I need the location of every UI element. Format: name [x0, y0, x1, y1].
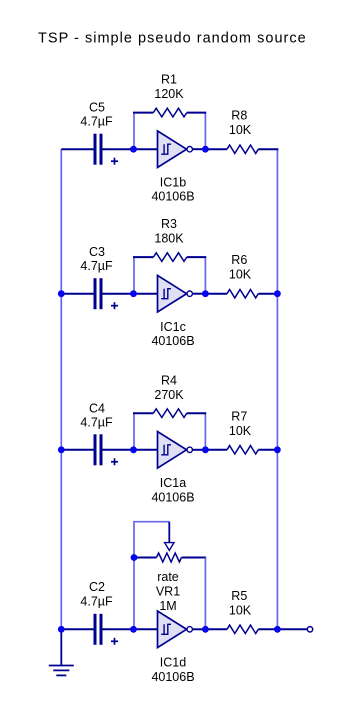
svg-text:40106B: 40106B — [151, 670, 194, 684]
svg-text:10K: 10K — [229, 123, 252, 137]
svg-text:40106B: 40106B — [151, 190, 194, 204]
svg-text:1M: 1M — [159, 599, 176, 613]
svg-text:R4: R4 — [161, 373, 177, 387]
svg-text:270K: 270K — [154, 388, 184, 402]
svg-text:R7: R7 — [231, 409, 247, 423]
svg-text:120K: 120K — [154, 87, 184, 101]
svg-text:4.7µF: 4.7µF — [80, 595, 113, 609]
svg-text:R3: R3 — [161, 217, 177, 231]
svg-text:VR1: VR1 — [156, 585, 180, 599]
svg-text:10K: 10K — [229, 603, 252, 617]
svg-text:180K: 180K — [154, 232, 184, 246]
svg-text:4.7µF: 4.7µF — [80, 115, 113, 129]
svg-text:10K: 10K — [229, 424, 252, 438]
svg-text:IC1a: IC1a — [160, 476, 186, 490]
svg-text:R6: R6 — [231, 253, 247, 267]
svg-text:40106B: 40106B — [151, 490, 194, 504]
svg-text:C2: C2 — [89, 580, 105, 594]
svg-text:R8: R8 — [231, 109, 247, 123]
svg-text:rate: rate — [157, 570, 179, 584]
svg-text:C5: C5 — [89, 101, 105, 115]
svg-text:4.7µF: 4.7µF — [80, 415, 113, 429]
svg-text:C4: C4 — [89, 401, 105, 415]
svg-text:40106B: 40106B — [151, 334, 194, 348]
svg-text:TSP - simple pseudo random sou: TSP - simple pseudo random source — [38, 31, 307, 47]
svg-text:IC1b: IC1b — [160, 175, 186, 189]
svg-text:C3: C3 — [89, 245, 105, 259]
svg-text:R5: R5 — [231, 589, 247, 603]
svg-text:4.7µF: 4.7µF — [80, 259, 113, 273]
svg-text:10K: 10K — [229, 268, 252, 282]
svg-text:IC1c: IC1c — [160, 320, 186, 334]
svg-text:R1: R1 — [161, 73, 177, 87]
svg-text:IC1d: IC1d — [160, 656, 186, 670]
